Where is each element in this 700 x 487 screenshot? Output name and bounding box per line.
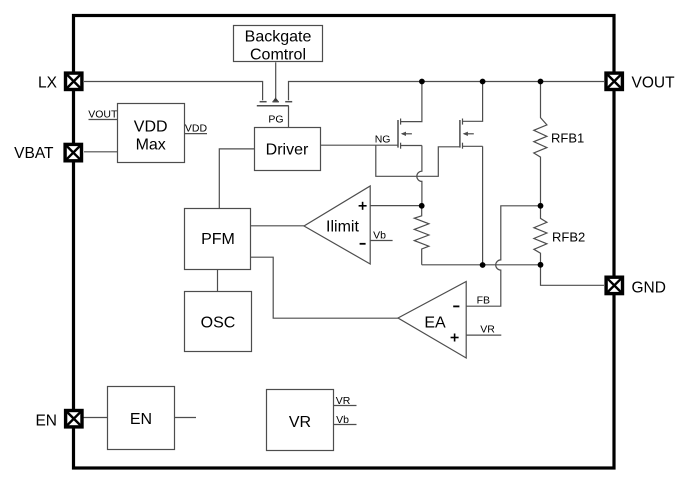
svg-text:VR: VR xyxy=(336,395,351,407)
node RFB2 bottom xyxy=(538,262,544,268)
wire Ilimit + input to sense node xyxy=(370,205,422,207)
node M2 source / bottom rail xyxy=(480,262,486,268)
svg-text:OSC: OSC xyxy=(201,315,236,332)
svg-text:LX: LX xyxy=(38,75,58,92)
net label VOUT into VDD Max xyxy=(89,119,118,121)
svg-text:EN: EN xyxy=(35,413,57,430)
wire Backgate Comtrol to PMOS bulk xyxy=(275,62,277,98)
block VR U_VR xyxy=(267,390,334,451)
block OSC U_OSC xyxy=(185,292,252,352)
svg-text:RFB2: RFB2 xyxy=(552,230,585,245)
wire FB from divider tap with hop over bottom rail xyxy=(466,206,540,306)
wire M2 source down to bottom rail xyxy=(482,146,484,265)
node sense resistor top xyxy=(419,203,425,209)
wire PG gate to Driver xyxy=(288,106,290,127)
pin VOUT xyxy=(606,73,622,89)
svg-text:Vb: Vb xyxy=(336,414,349,426)
svg-text:VOUT: VOUT xyxy=(88,109,118,121)
op-amp Ilimit xyxy=(304,186,370,264)
svg-text:PFM: PFM xyxy=(201,231,235,248)
net label Vb output xyxy=(334,424,357,426)
block Backgate Comtrol U_BG xyxy=(234,26,323,62)
wire EN pin to EN block xyxy=(83,417,108,419)
node M2 drain / top rail xyxy=(480,79,486,85)
net label VDD out of VDD Max xyxy=(185,133,208,135)
wire EA output to PFM xyxy=(251,257,398,318)
pin LX xyxy=(66,73,82,89)
svg-text:VBAT: VBAT xyxy=(14,145,54,162)
block Driver U_DRV xyxy=(255,128,321,171)
svg-text:Vb: Vb xyxy=(373,230,386,242)
wire top rail PMOS drain to VOUT xyxy=(289,82,605,101)
net label VR at EA + input xyxy=(466,334,501,336)
svg-text:EA: EA xyxy=(424,315,446,332)
pin VBAT xyxy=(65,144,81,160)
svg-text:VOUT: VOUT xyxy=(632,75,676,92)
svg-text:Max: Max xyxy=(136,137,166,154)
net label VR output xyxy=(334,405,357,407)
wire RFB2 bottom to GND pin xyxy=(541,265,605,286)
block EN U_EN xyxy=(108,387,175,450)
wire bottom rail xyxy=(422,264,541,266)
op-amp EA xyxy=(398,282,466,359)
wire NG branch to second gate xyxy=(376,145,460,176)
resistor RFB1 xyxy=(534,82,547,206)
net label Vb at Ilimit - input xyxy=(370,240,392,242)
svg-text:Ilimit: Ilimit xyxy=(326,219,359,236)
node RFB1 top / top rail xyxy=(538,79,544,85)
transistor NMOS M2 xyxy=(460,82,483,149)
block PFM U_PFM xyxy=(185,209,251,270)
wire Ilimit output to PFM xyxy=(251,225,304,227)
wire EN block output stub xyxy=(175,417,197,419)
svg-text:GND: GND xyxy=(632,280,666,297)
svg-text:NG: NG xyxy=(375,133,391,145)
svg-text:Driver: Driver xyxy=(266,142,309,159)
wire M1 source down with hop over NG wire xyxy=(417,146,422,207)
transistor NMOS M1 xyxy=(398,82,422,149)
wire Driver to NG gate xyxy=(321,144,399,146)
svg-text:FB: FB xyxy=(477,295,490,307)
block VDD Max U_VDD xyxy=(118,104,185,163)
svg-text:Comtrol: Comtrol xyxy=(250,47,306,64)
node FB divider tap xyxy=(538,203,544,209)
node M1 drain / top rail xyxy=(419,79,425,85)
wire VBAT to VDD Max xyxy=(84,151,117,153)
resistor RFB2 xyxy=(534,206,547,265)
svg-text:VDD: VDD xyxy=(134,119,168,136)
wire PFM to OSC xyxy=(217,270,219,292)
outer IC boundary box xyxy=(74,16,615,469)
svg-text:EN: EN xyxy=(130,411,152,428)
svg-text:PG: PG xyxy=(268,114,283,126)
pin EN xyxy=(66,411,82,427)
svg-text:VR: VR xyxy=(289,414,311,431)
wire LX to PMOS source xyxy=(84,82,263,101)
svg-text:VR: VR xyxy=(480,324,495,336)
svg-text:Backgate: Backgate xyxy=(245,29,312,46)
resistor R sense (unlabeled) xyxy=(414,206,429,265)
svg-text:VDD: VDD xyxy=(185,123,208,135)
transistor PMOS (pass FET) xyxy=(257,97,292,105)
pin GND xyxy=(606,277,622,293)
svg-text:RFB1: RFB1 xyxy=(551,131,584,146)
wire PFM to Driver xyxy=(219,149,254,209)
